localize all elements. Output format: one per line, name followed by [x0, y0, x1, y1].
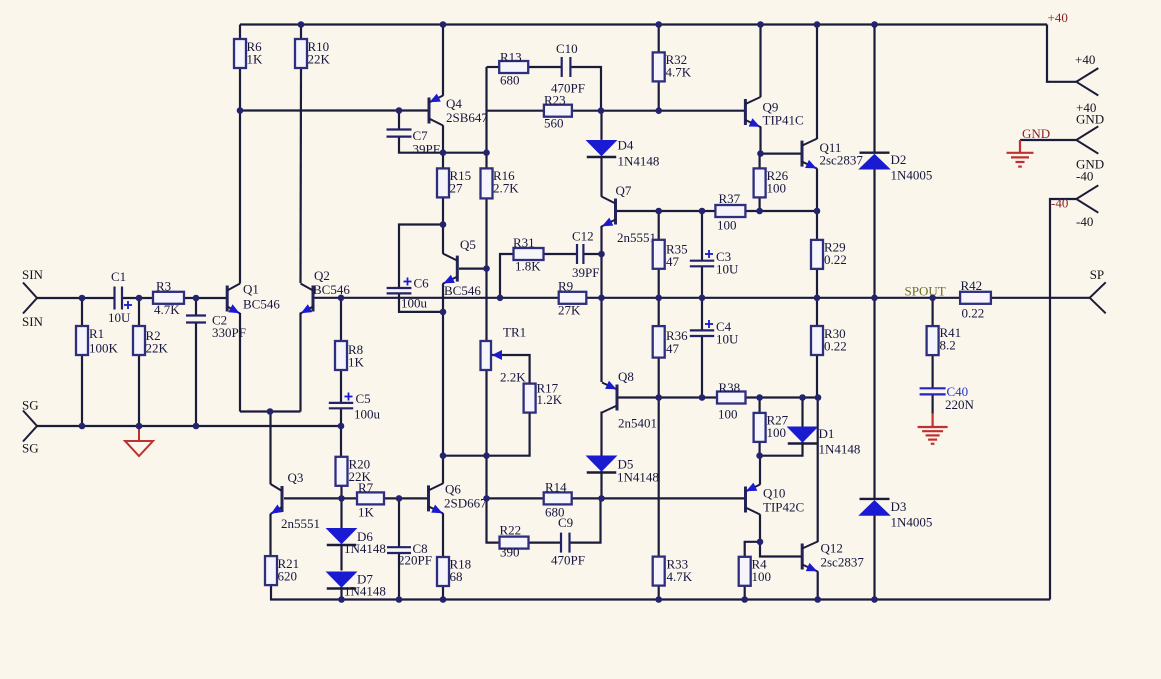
svg-text:Q2: Q2: [314, 268, 330, 283]
resistor R1: [76, 326, 88, 355]
wire R32 top lead: [658, 25, 660, 53]
junction x399 y498.4: [396, 495, 403, 502]
transistor Q6: [429, 483, 444, 513]
svg-text:1.2K: 1.2K: [537, 392, 563, 407]
wire Q1 collector: [239, 111, 241, 284]
resistor R22: [500, 537, 529, 549]
wire D4 top lead: [600, 111, 602, 140]
label R22 value: [500, 523, 522, 560]
label Q10: [763, 486, 804, 515]
plus C6: [404, 278, 412, 286]
wire C3 top lead: [701, 211, 703, 261]
label Q2: [313, 268, 350, 297]
label Q7: [616, 183, 657, 245]
wire R15 bottom lead: [442, 197, 444, 225]
svg-text:2n5551: 2n5551: [617, 230, 656, 245]
wire R13 to C10: [528, 66, 561, 68]
junction x658.7 y110.7: [655, 107, 662, 114]
wire D6-D7 link: [340, 544, 342, 571]
svg-text:Q12: Q12: [821, 541, 843, 556]
capacitor C6: [387, 288, 412, 293]
wire D3 bottom to bus: [873, 516, 875, 600]
capacitor C3: [690, 261, 714, 267]
svg-text:1N4148: 1N4148: [344, 541, 386, 556]
junction x658.7 y211: [655, 208, 662, 215]
wire +40 top bus: [240, 23, 1047, 25]
label C3 value: [716, 249, 739, 277]
label R18 value: [450, 557, 472, 585]
wire R1 top lead: [81, 298, 83, 326]
junction x82 y426: [79, 423, 86, 430]
junction x486.5 y152.7: [483, 149, 490, 156]
svg-text:R13: R13: [500, 50, 522, 65]
wire C3 bottom lead: [701, 266, 703, 298]
capacitor C40: [920, 388, 946, 394]
svg-text:R3: R3: [156, 279, 171, 294]
wire Q8 collector to D5: [600, 412, 602, 456]
resistor R26: [754, 168, 766, 197]
svg-text:220PF: 220PF: [398, 553, 432, 568]
junction x341 y297.8: [338, 295, 345, 302]
wire R13/C10 top rail: [487, 66, 500, 68]
wire Q7 emitter down: [600, 226, 602, 298]
junction x240 y110.5: [237, 107, 244, 114]
junction x817 y297.8: [814, 295, 821, 302]
resistor R36: [653, 326, 665, 358]
wire x486 to R22: [487, 498, 500, 542]
resistor R37: [715, 205, 745, 217]
wire D2 top lead: [873, 25, 875, 153]
svg-text:Q1: Q1: [243, 282, 259, 297]
wire R31 branch: [500, 254, 514, 298]
wire node443-486 y455: [443, 455, 487, 457]
transistor Q3: [271, 484, 283, 514]
svg-text:SIN: SIN: [22, 314, 44, 329]
wire R26 top lead: [758, 154, 760, 169]
junction x744.7 y599.5: [741, 596, 748, 603]
label Q1: [243, 282, 280, 312]
svg-text:47: 47: [666, 341, 680, 356]
svg-text:1K: 1K: [348, 355, 365, 370]
plus C5: [345, 393, 353, 401]
junction x443 y24.5: [440, 21, 447, 28]
junction x802.5 y397.5: [799, 394, 806, 401]
capacitor C1: [115, 287, 123, 310]
transistor Q4: [429, 94, 443, 126]
capacitor C10: [562, 57, 571, 77]
svg-text:2SD667: 2SD667: [444, 496, 487, 511]
label R30 value: [824, 326, 847, 354]
svg-text:Q6: Q6: [445, 482, 461, 497]
svg-text:1N4148: 1N4148: [617, 470, 659, 485]
wire C2 bottom lead: [195, 323, 197, 427]
svg-text:R9: R9: [558, 279, 573, 294]
transistor Q8: [602, 381, 617, 413]
label Q4: [446, 96, 488, 125]
label C40 value: [945, 397, 975, 412]
wire x486 R13 branch down: [485, 67, 487, 168]
label R26 value: [767, 168, 789, 196]
svg-text:560: 560: [544, 116, 564, 131]
svg-text:330PF: 330PF: [212, 325, 246, 340]
resistor R42: [960, 292, 991, 304]
wire R29 bottom lead: [816, 268, 818, 298]
svg-text:D4: D4: [618, 138, 634, 153]
junction x658.7 y397.5: [655, 394, 662, 401]
svg-text:Q5: Q5: [460, 237, 476, 252]
svg-text:2sc2837: 2sc2837: [821, 555, 865, 570]
label SIN ports: [22, 267, 44, 329]
transistor Q5: [443, 254, 457, 284]
svg-text:1N4148: 1N4148: [618, 154, 660, 169]
label R10 value: [308, 39, 331, 67]
svg-text:39PF: 39PF: [572, 265, 599, 280]
junction x658.7 y297.8: [655, 295, 662, 302]
svg-text:+40: +40: [1075, 52, 1095, 67]
wire x486 down to base rail: [485, 456, 487, 499]
transistor Q11: [802, 139, 817, 169]
label C5 value: [354, 391, 381, 422]
resistor R35: [653, 240, 665, 269]
resistor R7: [357, 492, 384, 504]
svg-text:0.22: 0.22: [824, 252, 847, 267]
junction x399 y110.5: [396, 107, 403, 114]
svg-text:SG: SG: [22, 398, 39, 413]
wire R14 right to node: [572, 497, 602, 499]
wire D2 bottom lead: [873, 170, 875, 299]
resistor R31: [514, 248, 544, 260]
resistor R6: [234, 39, 246, 68]
wire C4 top lead: [701, 298, 703, 330]
label GND net: [1022, 126, 1050, 141]
junction x341.5 y498.4: [338, 495, 345, 502]
junction x443 y224.5: [440, 221, 447, 228]
wire D7 bottom to bus: [340, 587, 342, 600]
wire Q4 emitter from bus: [442, 25, 444, 96]
resistor R32: [653, 52, 665, 81]
resistor R17: [524, 384, 536, 413]
junction x500 y297.8: [497, 295, 504, 302]
wire R30 bottom lead: [816, 355, 818, 398]
wire R23 left lead: [487, 110, 544, 112]
port -40: [1076, 185, 1098, 212]
svg-text:68: 68: [450, 569, 463, 584]
plus C1: [124, 301, 132, 309]
label C4 value: [716, 319, 739, 347]
wire Q7 base rail y211: [617, 210, 817, 212]
wire R42 to SP port: [991, 297, 1090, 299]
svg-text:C5: C5: [356, 391, 371, 406]
resistor R4: [739, 557, 751, 586]
label Q3: [281, 470, 320, 531]
wire Q4 collector to node: [442, 125, 444, 152]
diode D2: [860, 153, 890, 169]
wire node to Q10 base: [602, 497, 745, 499]
svg-text:-40: -40: [1051, 196, 1068, 211]
svg-text:R38: R38: [719, 380, 741, 395]
wire C2 top lead: [195, 298, 197, 316]
junction x399 y599.5: [396, 596, 403, 603]
svg-text:27: 27: [450, 181, 464, 196]
wire C6 loop top: [399, 225, 443, 289]
junction x82 y298: [79, 295, 86, 302]
wire C10 right drop: [570, 67, 601, 111]
resistor R15: [437, 168, 449, 197]
wire C7 bottom to R15/R16 rail: [399, 137, 487, 153]
svg-text:27K: 27K: [558, 303, 581, 318]
svg-text:39PF: 39PF: [413, 142, 440, 157]
label R16 value: [493, 168, 519, 196]
diode D3: [860, 499, 890, 515]
label C9 value: [551, 515, 585, 568]
resistor R13: [499, 61, 528, 73]
plus C4: [705, 320, 713, 328]
wire D1 bottom jog: [760, 442, 803, 456]
label C6 value: [401, 276, 429, 311]
label R32 value: [666, 52, 692, 80]
trimmer TR1: [481, 341, 503, 370]
svg-text:SG: SG: [22, 441, 39, 456]
label SPOUT net: [905, 284, 946, 299]
junction x702 y211: [699, 208, 706, 215]
wire R7 right lead: [384, 497, 429, 499]
svg-text:2sc2837: 2sc2837: [820, 153, 864, 168]
label R33 value: [667, 557, 693, 585]
label C7 value: [413, 128, 440, 157]
ground GND earth symbol: [1007, 153, 1034, 167]
label R35 value: [666, 242, 688, 270]
label R21 value: [278, 556, 300, 584]
svg-text:SP: SP: [1090, 267, 1104, 282]
svg-text:100: 100: [767, 425, 787, 440]
label GND port: [1076, 112, 1104, 172]
wire Q10 collector: [759, 514, 761, 542]
svg-text:2SB647: 2SB647: [446, 110, 488, 125]
junction x818 y397.5: [815, 394, 822, 401]
wire Q12 emitter to bus: [817, 571, 819, 599]
wire C9 right to R14 node: [570, 498, 601, 542]
wire GND port lead: [1020, 139, 1076, 141]
svg-text:620: 620: [278, 569, 298, 584]
diode D7: [327, 572, 357, 589]
wire Q5 base lead: [459, 268, 487, 270]
svg-text:R31: R31: [513, 235, 535, 250]
port SIN: [23, 283, 37, 314]
svg-text:R1: R1: [89, 326, 104, 341]
label C10 value: [551, 41, 585, 96]
label SG ports: [22, 398, 39, 456]
resistor R16: [481, 168, 493, 198]
junction x196 y426: [193, 423, 200, 430]
transistor Q12: [802, 542, 818, 572]
wire R6 top lead: [239, 25, 241, 40]
svg-text:100: 100: [767, 181, 787, 196]
wire R26 bottom lead: [758, 197, 760, 211]
svg-text:10U: 10U: [108, 310, 131, 325]
wire Q5 emitter down: [442, 283, 444, 312]
capacitor C2: [186, 316, 206, 323]
transistor Q9: [745, 97, 760, 127]
resistor R41: [927, 326, 939, 355]
junction x759.6 y397.5: [756, 394, 763, 401]
svg-text:R42: R42: [961, 278, 983, 293]
svg-text:SIN: SIN: [22, 267, 44, 282]
label R6 value: [247, 39, 264, 67]
label Q5: [444, 237, 481, 298]
label R31 value: [513, 235, 541, 274]
wire R2 bottom lead: [138, 356, 140, 426]
wire C5/SG to R20: [340, 426, 342, 457]
svg-text:D2: D2: [891, 152, 907, 167]
label R27 value: [767, 413, 789, 441]
svg-text:Q7: Q7: [616, 183, 632, 198]
wire R18 bottom lead: [442, 585, 444, 600]
wire R10 top lead: [300, 25, 302, 40]
label Q11: [820, 140, 864, 168]
svg-text:1N4148: 1N4148: [819, 442, 861, 457]
wire R32 bottom lead: [658, 82, 660, 111]
label R29 value: [824, 240, 847, 268]
junction x759.6 y455.7: [756, 452, 763, 459]
wire Q2 base to R8 node: [315, 297, 342, 299]
svg-text:0.22: 0.22: [962, 306, 985, 321]
svg-text:0.22: 0.22: [824, 339, 847, 354]
label Q6: [444, 482, 487, 511]
junction x601.5 y297.8: [598, 295, 605, 302]
capacitor C5: [329, 403, 353, 408]
wire Q3 base rail: [284, 497, 357, 499]
resistor R29: [811, 240, 823, 269]
svg-text:TR1: TR1: [503, 325, 526, 340]
transistor Q7: [602, 197, 616, 227]
junction x658.7 y24.5: [655, 21, 662, 28]
port GND: [1076, 126, 1098, 153]
svg-text:1N4148: 1N4148: [344, 584, 386, 599]
svg-text:C10: C10: [556, 41, 578, 56]
svg-text:BC546: BC546: [313, 282, 350, 297]
svg-text:680: 680: [500, 73, 520, 88]
svg-text:Q8: Q8: [618, 369, 634, 384]
svg-text:R22: R22: [500, 523, 522, 538]
resistor R33: [653, 557, 665, 586]
resistor R21: [265, 556, 277, 585]
wire to Q3 collector: [269, 412, 271, 485]
svg-text:4.7K: 4.7K: [666, 65, 692, 80]
svg-text:100: 100: [752, 569, 772, 584]
wire Q9E to Q11 base: [761, 153, 803, 155]
wire R6 bottom lead to node: [239, 67, 241, 111]
resistor R10: [295, 39, 307, 68]
svg-text:BC546: BC546: [444, 283, 481, 298]
wire R1 bottom lead: [81, 356, 83, 426]
svg-text:-40: -40: [1076, 169, 1093, 184]
port +40: [1076, 68, 1098, 95]
svg-text:22K: 22K: [146, 341, 169, 356]
svg-text:R23: R23: [544, 93, 566, 108]
svg-text:2n5551: 2n5551: [281, 516, 320, 531]
svg-text:+40: +40: [1048, 10, 1068, 25]
wire R41 top lead: [931, 298, 933, 326]
svg-text:C9: C9: [558, 515, 573, 530]
label R23 value: [544, 93, 566, 131]
wire D6 top lead: [340, 498, 342, 528]
resistor R20: [336, 457, 348, 486]
junction x486.5 y455.7: [483, 452, 490, 459]
wire R10 to Q2 collector: [299, 67, 302, 283]
wire SIN input to C1: [37, 297, 115, 299]
capacitor C4: [690, 330, 714, 336]
svg-text:4.7K: 4.7K: [154, 302, 180, 317]
wire R41 to C40: [931, 355, 933, 388]
junction x196 y298: [193, 295, 200, 302]
wire SG rail: [37, 425, 341, 427]
svg-text:1.8K: 1.8K: [515, 259, 541, 274]
label R2 value: [146, 328, 169, 356]
svg-text:1K: 1K: [247, 52, 264, 67]
transistor Q2: [301, 284, 314, 314]
junction x817 y24.5: [814, 21, 821, 28]
resistor R18: [437, 557, 449, 586]
junction x139 y426: [136, 423, 143, 430]
wire R8 bottom to C5: [340, 369, 342, 403]
wire R4 bottom lead: [744, 585, 746, 600]
wire R31 to C12: [544, 253, 578, 255]
svg-text:GND: GND: [1022, 126, 1050, 141]
junction x817.7 y599.5: [814, 596, 821, 603]
label Q12: [821, 541, 865, 570]
resistor R2: [133, 326, 145, 355]
label R37 value: [717, 191, 741, 233]
junction x874.5 y24.5: [871, 21, 878, 28]
junction x702 y297.8: [699, 295, 706, 302]
wire Q2 emitter down: [299, 313, 301, 412]
wire Q12 collector: [817, 398, 819, 543]
svg-text:100u: 100u: [401, 296, 428, 311]
wire R27 top lead: [758, 398, 760, 413]
svg-text:GND: GND: [1076, 112, 1104, 127]
label R3 value: [154, 279, 180, 318]
svg-text:TIP41C: TIP41C: [763, 113, 804, 128]
wire Q1 emitter down: [239, 313, 241, 412]
junction x443 y152.7: [440, 149, 447, 156]
svg-text:47: 47: [666, 254, 680, 269]
junction x658.7 y599.5: [655, 596, 662, 603]
junction x932.6 y297.8: [929, 295, 936, 302]
junction x486.5 y498.4: [483, 495, 490, 502]
wire TR1 bottom: [485, 370, 487, 456]
svg-text:2.7K: 2.7K: [493, 181, 519, 196]
wire R33 top lead: [658, 398, 660, 557]
junction x817 y211: [814, 208, 821, 215]
label R14 value: [545, 480, 567, 520]
label C8 value: [398, 541, 432, 568]
label +40 port: [1075, 52, 1096, 115]
wire C12 to Q7 emitter line: [583, 253, 601, 255]
diode D5: [587, 456, 617, 473]
label C1 value: [108, 269, 131, 325]
plus C3: [705, 250, 713, 258]
label C40: [947, 384, 969, 399]
label C12 value: [572, 229, 599, 281]
svg-text:390: 390: [500, 545, 520, 560]
diode D4: [587, 141, 617, 158]
label D1: [819, 426, 861, 457]
label R15 value: [450, 168, 472, 196]
wire GND red stub: [1019, 140, 1021, 153]
wire R36 top lead: [658, 298, 660, 326]
resistor R3: [153, 292, 184, 304]
wire Q6 emitter to R18: [442, 513, 444, 557]
